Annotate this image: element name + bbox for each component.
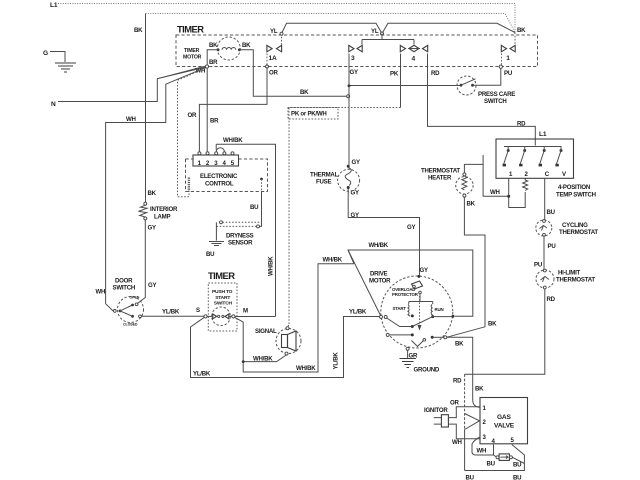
wire signal top dotted <box>288 325 290 327</box>
wire BU diagonal to pin2 <box>465 421 480 430</box>
wire BK to interior lamp <box>145 14 147 203</box>
svg-text:PU: PU <box>548 243 557 250</box>
svg-text:1: 1 <box>506 55 510 62</box>
wire G to ground <box>50 52 65 63</box>
svg-text:BK: BK <box>517 27 526 34</box>
svg-text:CONTROL: CONTROL <box>205 181 234 188</box>
svg-text:L1: L1 <box>539 131 547 138</box>
svg-text:START: START <box>393 306 407 311</box>
svg-text:BU: BU <box>466 475 475 480</box>
cycling thermostat <box>536 220 599 237</box>
svg-text:VALVE: VALVE <box>494 423 515 430</box>
wire PK dotted <box>400 54 402 108</box>
svg-text:YL/BK: YL/BK <box>162 309 180 316</box>
dryness sensor <box>206 221 262 258</box>
svg-text:BK: BK <box>148 190 157 197</box>
wire L1 line <box>58 4 515 33</box>
contact 4 <box>390 45 440 77</box>
wire RD from contact4 <box>428 54 536 146</box>
svg-text:GY: GY <box>148 225 156 232</box>
wire WH heater to temp switch <box>483 164 509 196</box>
svg-text:WH/BK: WH/BK <box>253 356 273 363</box>
svg-text:DRIVE: DRIVE <box>370 271 388 278</box>
ground earth symbol <box>55 63 76 72</box>
svg-text:THERMOSTAT: THERMOSTAT <box>559 229 598 236</box>
svg-text:BK: BK <box>467 201 476 208</box>
wire BK from motor switch <box>447 197 486 337</box>
timer motor M1 <box>209 37 251 60</box>
svg-text:CYCLING: CYCLING <box>562 222 588 229</box>
svg-text:BU: BU <box>250 204 259 211</box>
wire GR ground <box>407 350 409 358</box>
wire WH pin3 to pin4 loop <box>472 437 494 455</box>
svg-text:CLOSED: CLOSED <box>123 323 138 327</box>
svg-text:RD: RD <box>431 70 440 77</box>
timer dashed box <box>176 35 538 67</box>
node YL junction <box>381 32 384 35</box>
wire RD hi-limit down <box>465 289 545 374</box>
svg-text:LAMP: LAMP <box>154 214 170 221</box>
svg-text:DRYNESS: DRYNESS <box>226 233 254 240</box>
contact 1 <box>499 33 515 78</box>
svg-text:WH/BK: WH/BK <box>296 365 316 372</box>
svg-text:RD: RD <box>517 121 526 128</box>
svg-text:WH/BK: WH/BK <box>323 257 343 264</box>
dashed actuator arrow <box>419 296 421 325</box>
svg-text:4: 4 <box>412 56 416 63</box>
svg-text:GAS: GAS <box>497 414 511 421</box>
wire signal bottom to M net <box>243 355 286 362</box>
wire timer motor right BK <box>239 50 346 96</box>
wire WH/BK from EC <box>216 144 275 316</box>
svg-text:L1: L1 <box>50 2 58 9</box>
svg-text:N: N <box>51 101 56 108</box>
wire YL/BK from S down <box>191 317 380 378</box>
svg-text:BK: BK <box>242 42 251 49</box>
svg-text:PU: PU <box>504 70 513 77</box>
svg-text:BR: BR <box>210 118 219 125</box>
svg-text:BK: BK <box>134 27 143 34</box>
electronic control connector <box>193 148 239 167</box>
svg-text:WH/BK: WH/BK <box>223 137 243 144</box>
wire fan dotted to electronic control <box>178 68 206 197</box>
svg-text:WH/BK: WH/BK <box>268 256 275 276</box>
svg-text:BR: BR <box>209 59 218 66</box>
door switch SW2 <box>96 278 157 327</box>
wire BK top line <box>146 14 516 33</box>
wire cycling to hi-limit <box>543 236 545 269</box>
svg-text:SWITCH: SWITCH <box>214 301 233 307</box>
internal switch <box>380 315 383 318</box>
svg-text:PK or PK/WH: PK or PK/WH <box>291 111 327 118</box>
svg-text:PRESS CARE: PRESS CARE <box>478 91 515 98</box>
svg-text:THERMOSTAT: THERMOSTAT <box>556 277 595 284</box>
svg-text:BU: BU <box>487 461 496 468</box>
svg-text:GY: GY <box>148 282 156 289</box>
svg-text:M: M <box>243 308 248 315</box>
wire OR ignitor to pin1 <box>453 407 480 418</box>
svg-text:PK: PK <box>390 71 399 78</box>
wire BU dryness <box>260 192 262 227</box>
wire RD diagonal to pin2 <box>465 414 480 421</box>
svg-text:BK: BK <box>300 89 309 96</box>
svg-text:YL/BK: YL/BK <box>349 309 367 316</box>
wire WH/BK from M down <box>235 264 354 372</box>
contact 3 <box>349 28 414 76</box>
svg-text:YL: YL <box>270 28 278 35</box>
svg-text:BU: BU <box>547 209 556 216</box>
svg-text:HEATER: HEATER <box>428 175 452 182</box>
push to start dotted box <box>208 283 237 331</box>
svg-text:OR: OR <box>188 112 197 119</box>
wire fan to N <box>157 67 205 79</box>
svg-text:RUN: RUN <box>435 307 444 312</box>
svg-text:GY: GY <box>420 267 428 274</box>
interior lamp LP1 <box>139 202 178 231</box>
wire BR junction to pin2 <box>206 68 208 152</box>
contact 1A <box>266 28 284 76</box>
svg-text:BK: BK <box>488 321 497 328</box>
wire OR from 1A to pin1 <box>199 68 267 153</box>
svg-text:HI-LIMIT: HI-LIMIT <box>558 270 581 277</box>
thermal fuse F1 <box>310 165 360 192</box>
wire BK down to gas valve pin1 <box>447 337 480 407</box>
wire timer motor left BR <box>207 50 218 65</box>
wire C down <box>544 179 546 221</box>
svg-text:TIMER: TIMER <box>184 48 200 54</box>
svg-text:PROTECTOR: PROTECTOR <box>392 292 419 297</box>
press care switch SW1 <box>457 76 515 105</box>
svg-text:WH: WH <box>452 439 462 446</box>
svg-text:BK: BK <box>475 386 484 393</box>
svg-text:YL/BK: YL/BK <box>333 352 340 370</box>
resistor pin2 <box>523 179 528 191</box>
node WH junction <box>205 65 208 68</box>
svg-text:GY: GY <box>352 159 360 166</box>
svg-text:TEMP SWITCH: TEMP SWITCH <box>556 192 596 199</box>
wire GY fuse to motor <box>348 188 419 276</box>
wire fan WH <box>106 68 206 304</box>
svg-text:WH/BK: WH/BK <box>369 242 389 249</box>
svg-text:OPEN: OPEN <box>130 296 140 300</box>
svg-text:IGNITOR: IGNITOR <box>424 407 448 414</box>
svg-text:RD: RD <box>453 378 462 385</box>
svg-text:TIMER: TIMER <box>177 24 204 35</box>
svg-text:WH: WH <box>490 189 500 196</box>
svg-text:WH: WH <box>126 116 136 123</box>
gas valve <box>480 398 528 446</box>
svg-text:THERMAL: THERMAL <box>310 172 339 179</box>
svg-text:YL: YL <box>371 28 379 35</box>
svg-text:PUSH TO: PUSH TO <box>212 289 233 295</box>
svg-text:4-POSITION: 4-POSITION <box>558 184 590 191</box>
svg-text:SENSOR: SENSOR <box>228 240 253 247</box>
svg-text:DOOR: DOOR <box>115 278 133 285</box>
svg-text:OR: OR <box>269 69 278 76</box>
node circle on GY <box>347 95 350 98</box>
wire BU pin5 loop <box>465 445 525 471</box>
EC right terminal <box>260 178 263 181</box>
electronic control dashed box <box>186 159 268 192</box>
coil between 4 and 5 <box>487 454 525 469</box>
svg-text:S: S <box>196 307 200 314</box>
EC left terminal bar <box>188 178 190 191</box>
windings <box>409 294 433 304</box>
wire GY press care to contact3 <box>349 85 461 87</box>
wire ignitor bottom to pin3 <box>453 424 480 439</box>
svg-text:1A: 1A <box>269 55 277 62</box>
wire pin1 down with resistor jog <box>509 179 526 208</box>
svg-text:GROUND: GROUND <box>414 367 440 374</box>
svg-text:GY: GY <box>351 212 359 219</box>
svg-text:THERMOSTAT: THERMOSTAT <box>421 168 460 175</box>
svg-text:GY: GY <box>350 69 358 76</box>
svg-text:TIMER: TIMER <box>208 270 235 281</box>
thermostat heater R1 <box>421 168 473 198</box>
wire N line <box>58 67 204 102</box>
svg-text:G: G <box>43 50 48 57</box>
svg-text:OR: OR <box>450 400 459 407</box>
svg-text:BK: BK <box>455 341 464 348</box>
svg-text:BK: BK <box>209 42 218 49</box>
wire GY vertical <box>348 55 350 166</box>
push to start switch SW3 <box>196 307 248 326</box>
wire heater top <box>464 155 483 173</box>
svg-text:GY: GY <box>407 224 415 231</box>
svg-text:3: 3 <box>351 55 355 62</box>
svg-text:SWITCH: SWITCH <box>113 285 136 292</box>
svg-text:PU: PU <box>534 262 543 269</box>
svg-text:START: START <box>215 295 230 301</box>
svg-text:BU: BU <box>206 251 215 258</box>
wire GY lamp to door switch <box>137 220 146 304</box>
signal buzzer <box>255 327 301 355</box>
overload protector <box>412 281 423 289</box>
svg-text:INTERIOR: INTERIOR <box>150 206 178 213</box>
ignitor <box>424 407 453 427</box>
svg-text:MOTOR: MOTOR <box>369 278 391 285</box>
drive motor M2 <box>369 271 455 351</box>
svg-text:SIGNAL: SIGNAL <box>255 328 277 335</box>
wire YL/BK door to S <box>141 315 204 317</box>
4 position temp switch <box>496 139 574 178</box>
wire PU to press care <box>474 68 501 85</box>
svg-text:WH: WH <box>96 289 106 296</box>
ground symbol motor <box>400 359 417 368</box>
svg-text:WH: WH <box>477 448 487 455</box>
svg-text:SWITCH: SWITCH <box>484 98 507 105</box>
svg-text:RD: RD <box>547 296 556 303</box>
wire WH/BK EC join M <box>235 316 276 318</box>
label box PK or PK/WH <box>288 108 338 120</box>
node junction dot GY <box>348 84 351 87</box>
svg-text:BU: BU <box>513 475 522 480</box>
svg-text:ELECTRONIC: ELECTRONIC <box>200 173 238 180</box>
hi-limit thermostat <box>536 269 595 289</box>
svg-text:FUSE: FUSE <box>316 179 331 186</box>
wire WH/BK to motor run <box>348 250 473 316</box>
svg-text:BU: BU <box>513 462 522 469</box>
svg-text:YL/BK: YL/BK <box>193 371 211 378</box>
wire YL top link <box>282 23 516 33</box>
svg-text:MOTOR: MOTOR <box>183 55 202 61</box>
